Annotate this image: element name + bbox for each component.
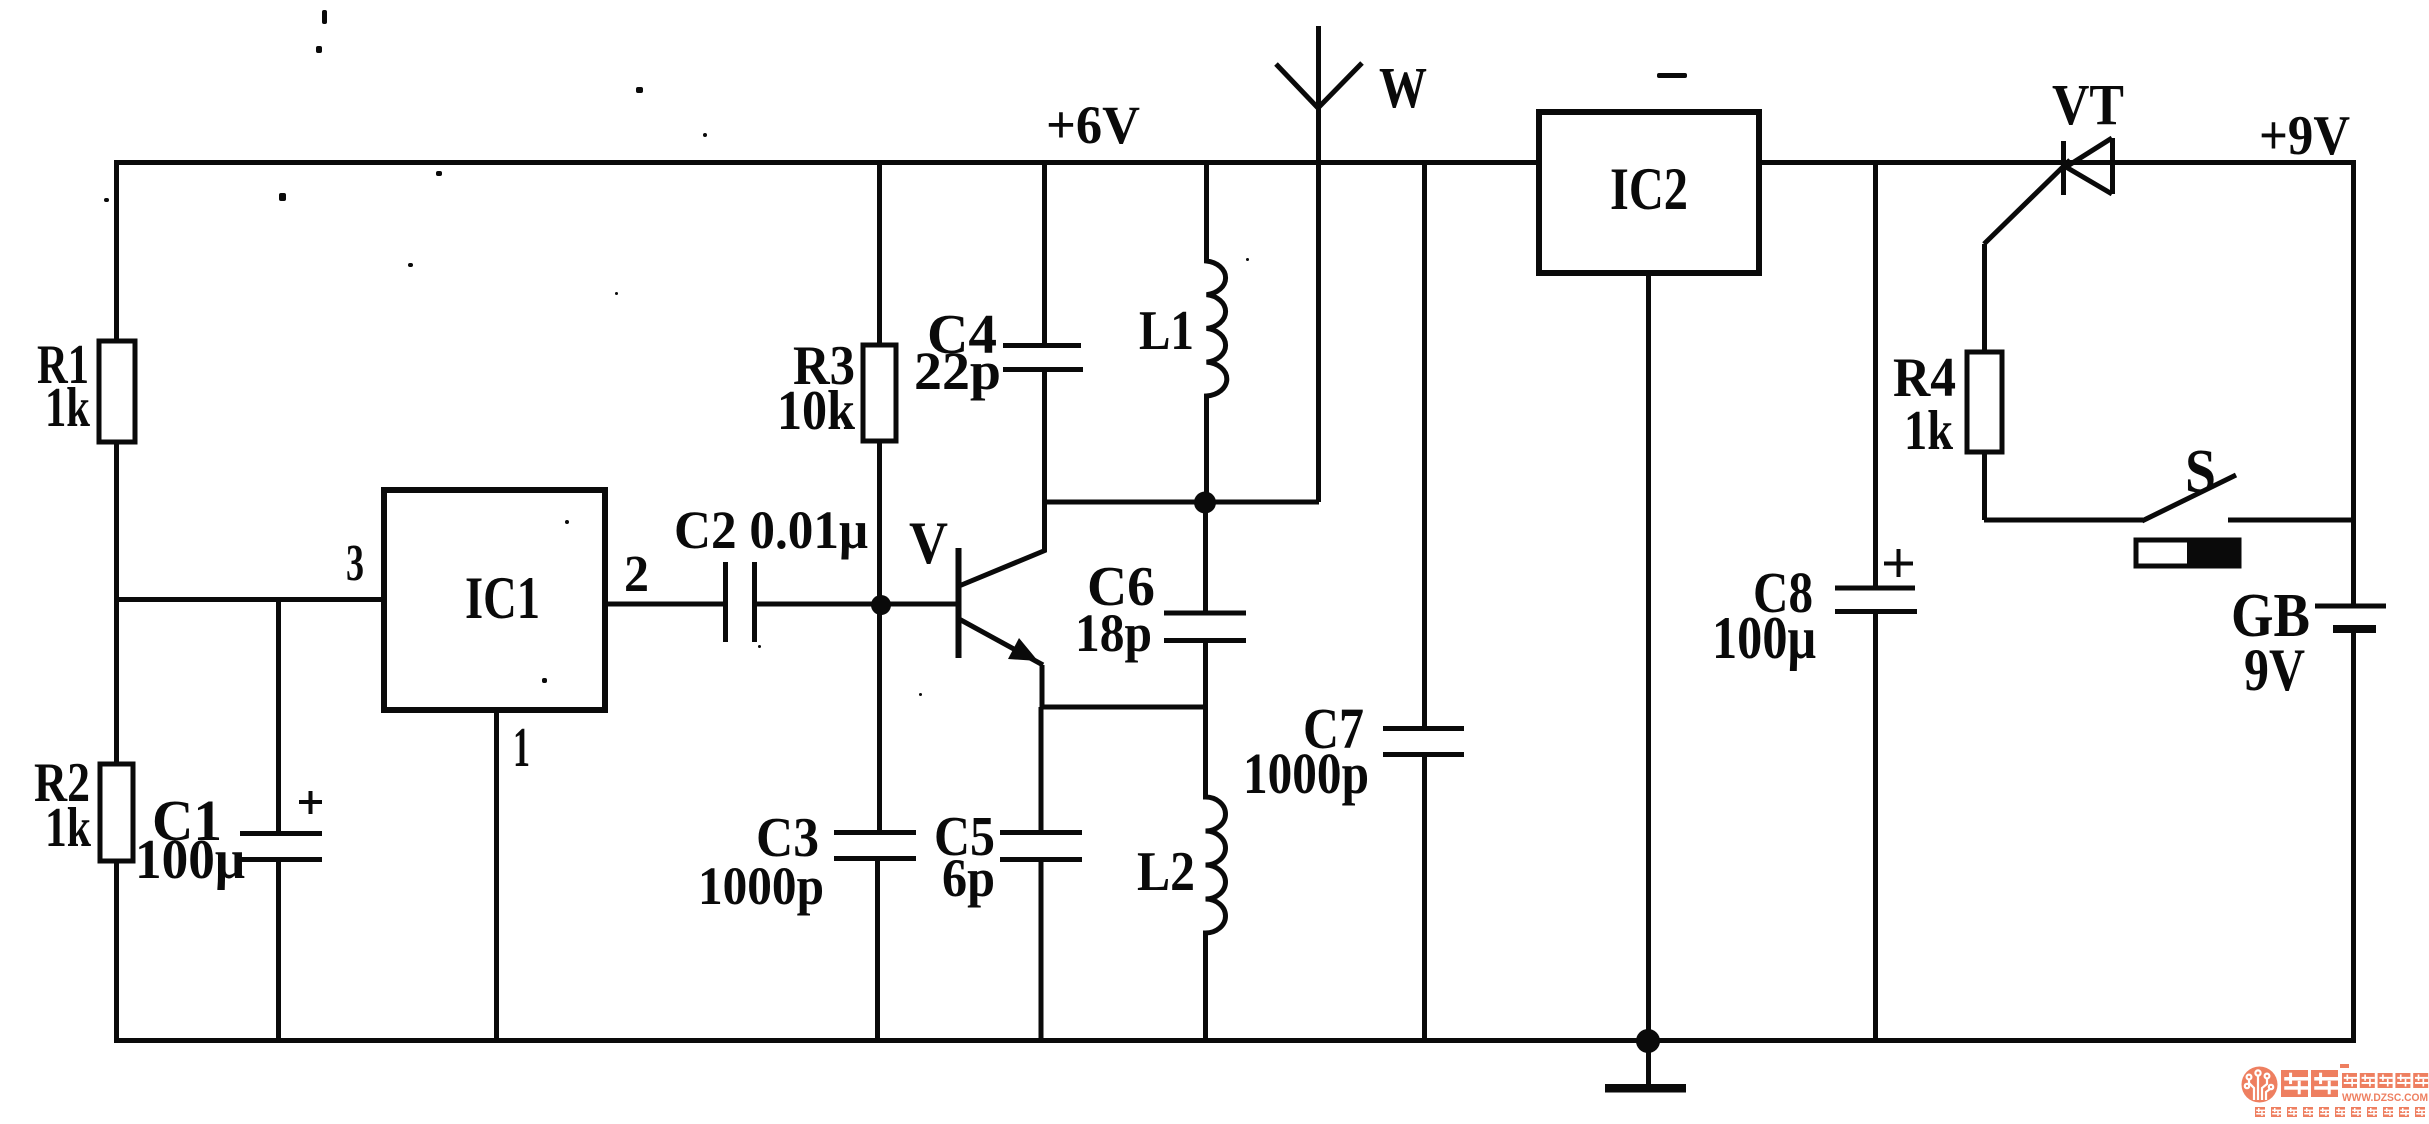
svg-text:WWW.DZSC.COM: WWW.DZSC.COM: [2342, 1092, 2428, 1104]
svg-text:1000p: 1000p: [698, 856, 824, 916]
svg-text:3: 3: [346, 535, 364, 592]
svg-text:L2: L2: [1137, 841, 1195, 903]
svg-text:100μ: 100μ: [1712, 605, 1816, 671]
svg-text:18p: 18p: [1075, 603, 1152, 663]
svg-text:L1: L1: [1139, 300, 1194, 362]
svg-text:IC1: IC1: [465, 565, 540, 631]
svg-text:1k: 1k: [45, 797, 92, 859]
svg-text:W: W: [1379, 55, 1427, 120]
svg-text:V: V: [909, 510, 948, 576]
svg-text:22p: 22p: [914, 341, 1001, 401]
svg-text:6p: 6p: [942, 848, 995, 908]
svg-text:1000p: 1000p: [1243, 741, 1369, 806]
svg-text:1k: 1k: [45, 377, 91, 439]
svg-text:10k: 10k: [777, 380, 856, 442]
svg-text:VT: VT: [2052, 72, 2124, 137]
svg-text:+9V: +9V: [2259, 105, 2350, 167]
svg-text:IC2: IC2: [1610, 156, 1688, 222]
svg-text:9V: 9V: [2244, 637, 2305, 703]
svg-text:C2 0.01μ: C2 0.01μ: [674, 500, 868, 560]
svg-text:1k: 1k: [1904, 400, 1954, 462]
svg-text:1: 1: [513, 717, 530, 779]
svg-text:S: S: [2185, 438, 2216, 506]
svg-text:2: 2: [624, 546, 649, 603]
svg-text:+6V: +6V: [1046, 95, 1140, 155]
svg-text:100μ: 100μ: [135, 829, 245, 891]
